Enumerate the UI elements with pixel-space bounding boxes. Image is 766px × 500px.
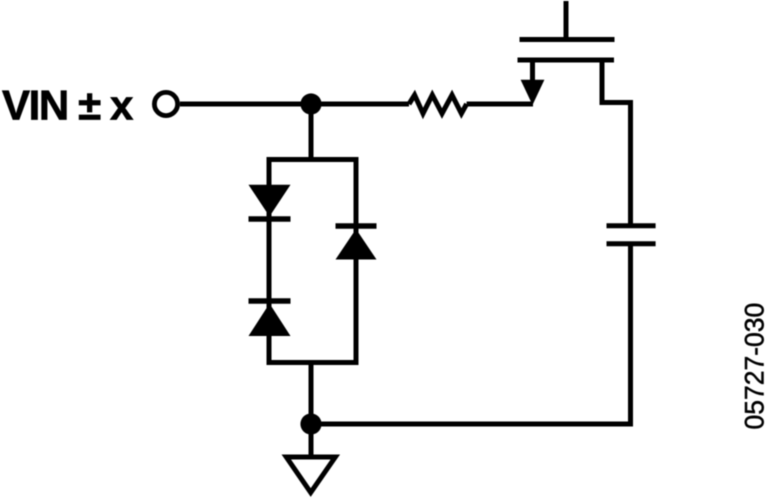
capacitor C1 top plate [607, 223, 656, 228]
transistor Q1 source arrow [521, 80, 545, 105]
wire node A down to diode network [309, 104, 314, 162]
wire resistor to transistor source [467, 102, 533, 107]
transistor Q1 channel bar [518, 58, 615, 63]
wire capacitor to node B [311, 244, 631, 424]
diode D2 triangle [249, 304, 291, 337]
transistor Q1 gate plate [520, 37, 615, 42]
node A junction dot [300, 93, 321, 114]
input terminal circle [154, 92, 177, 115]
diode D3 cathode bar [336, 223, 377, 228]
transistor Q1 source lead [530, 60, 535, 82]
diode D1 triangle [249, 185, 291, 217]
transistor Q1 gate lead [564, 1, 569, 42]
wire node A to resistor [311, 102, 409, 107]
diode network top rail wire [267, 157, 359, 162]
diode network right branch wire [354, 157, 359, 365]
node B junction dot [300, 413, 321, 434]
diode D3 triangle [336, 229, 377, 260]
svg-text:VIN ± x: VIN ± x [2, 82, 134, 129]
wire input to node A [180, 102, 311, 107]
diode D2 cathode bar [249, 298, 291, 303]
transistor Q1 drain lead wire [602, 60, 631, 226]
diode D1 cathode bar [249, 216, 291, 221]
svg-text:05727-030: 05727-030 [740, 303, 766, 430]
ground symbol [286, 457, 335, 493]
capacitor C1 bottom plate [607, 241, 656, 246]
wire node B to ground [309, 424, 314, 457]
diode network left branch wire [267, 157, 272, 365]
wire diode network to node B [309, 365, 314, 424]
resistor R1 [409, 95, 467, 114]
diode network bottom rail wire [267, 360, 359, 365]
